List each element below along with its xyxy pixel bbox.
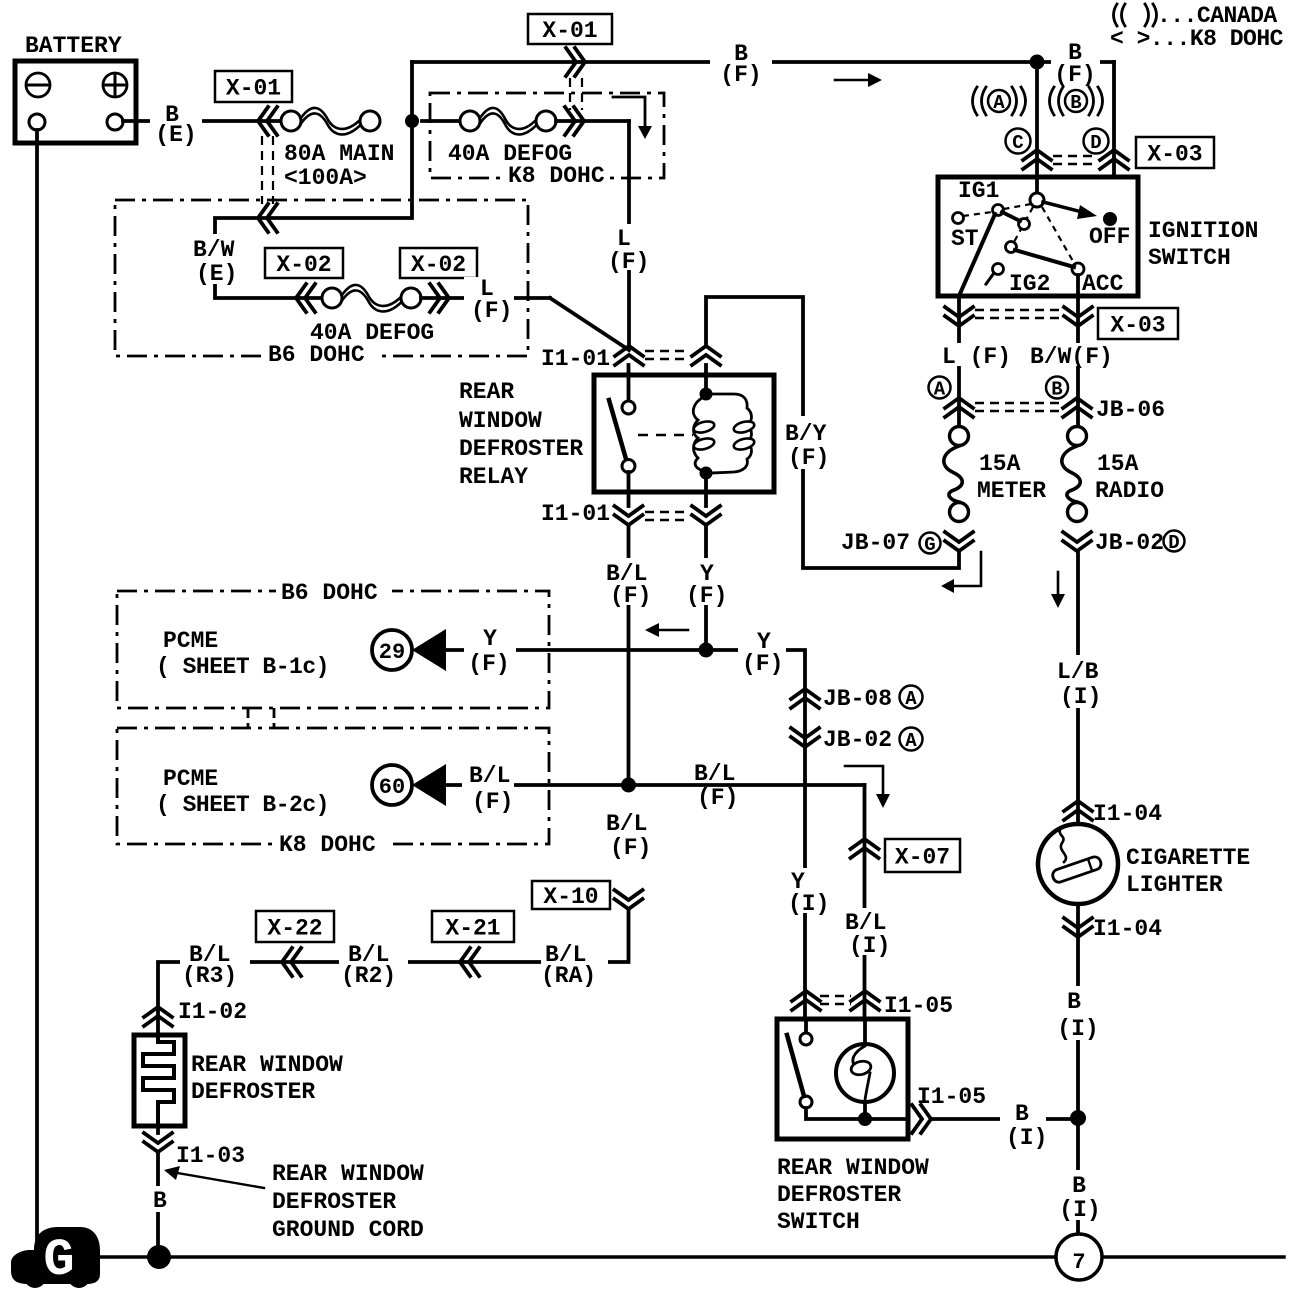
pin label B xyxy=(1046,377,1068,401)
svg-text:B: B xyxy=(1015,1101,1029,1127)
connector X-03 label box top xyxy=(1136,137,1214,168)
wire L (F) from K8 fuse to relay xyxy=(604,121,652,346)
bottom ground bus wire xyxy=(99,1255,1284,1258)
svg-text:(I): (I) xyxy=(1057,1016,1098,1042)
svg-text:(I): (I) xyxy=(1059,1197,1100,1223)
svg-text:B/W(F): B/W(F) xyxy=(1030,344,1113,370)
wire B/W (E) xyxy=(188,121,412,298)
svg-text:(F): (F) xyxy=(720,62,761,88)
dashed box B6 DOHC xyxy=(115,200,528,368)
svg-text:ST: ST xyxy=(951,226,979,252)
svg-text:X-10: X-10 xyxy=(543,884,598,910)
svg-text:IG1: IG1 xyxy=(958,178,999,204)
wire B/L (F) from relay switch xyxy=(602,525,652,785)
svg-text:I1-01: I1-01 xyxy=(541,501,610,527)
label L (F) xyxy=(936,343,1011,370)
svg-text:JB-02: JB-02 xyxy=(1095,530,1164,556)
connector X-01 chevron on B(F) xyxy=(566,48,585,76)
connector I1-05 xyxy=(792,991,953,1019)
fuse 15A RADIO xyxy=(1062,427,1164,522)
svg-text:JB-06: JB-06 xyxy=(1096,397,1165,423)
pin 60 with arrow xyxy=(372,764,446,806)
svg-text:I1-04: I1-04 xyxy=(1093,801,1162,827)
relay mechanical link (dashed) xyxy=(638,434,693,436)
svg-text:( SHEET B-2c): ( SHEET B-2c) xyxy=(156,792,329,818)
rear window defroster switch box xyxy=(777,1019,929,1235)
svg-text:RADIO: RADIO xyxy=(1095,478,1164,504)
svg-text:X-02: X-02 xyxy=(276,252,331,278)
dashed box 40A DEFOG K8 DOHC xyxy=(430,93,664,178)
wire B/Y (F) relay coil feed xyxy=(706,297,959,568)
svg-text:80A MAIN: 80A MAIN xyxy=(284,141,394,167)
sheet continuation circle 7 xyxy=(1056,1234,1102,1280)
svg-text:X-22: X-22 xyxy=(267,916,322,942)
svg-text:15A: 15A xyxy=(979,451,1021,477)
svg-text:JB-08: JB-08 xyxy=(823,686,892,712)
svg-text:B: B xyxy=(1070,92,1081,114)
svg-text:(F): (F) xyxy=(471,298,512,324)
svg-text:A: A xyxy=(993,92,1005,114)
svg-text:(R3): (R3) xyxy=(182,963,237,989)
svg-text:(F): (F) xyxy=(472,789,513,815)
connector X-03 chevrons top xyxy=(1023,150,1128,169)
svg-text:(F): (F) xyxy=(788,445,829,471)
junction block JB-06 connector xyxy=(945,397,1165,423)
pin label C xyxy=(1006,129,1031,155)
svg-text:PCME: PCME xyxy=(163,766,218,792)
svg-text:JB-02: JB-02 xyxy=(823,727,892,753)
svg-text:GROUND CORD: GROUND CORD xyxy=(272,1217,424,1243)
connector I1-02 xyxy=(144,999,247,1026)
junction dot B(F) / ignition feed xyxy=(1030,55,1045,70)
svg-text:I1-03: I1-03 xyxy=(176,1143,245,1169)
svg-text:REAR: REAR xyxy=(459,379,514,405)
fuse 80A MAIN <100A> xyxy=(281,108,394,191)
svg-text:(R2): (R2) xyxy=(341,963,396,989)
svg-text:(E): (E) xyxy=(196,261,237,287)
defroster switch lamp xyxy=(836,1019,894,1119)
connector X-01 dashed link xyxy=(262,136,273,204)
svg-text:DEFROSTER: DEFROSTER xyxy=(272,1189,396,1215)
wire L/B (I) to cigarette lighter xyxy=(1052,551,1112,825)
junction block JB-08 A xyxy=(791,686,923,713)
wire B/L (F) to PCME pin 60 xyxy=(444,760,865,815)
svg-text:I1-05: I1-05 xyxy=(917,1084,986,1110)
connector X-01 dashed link top xyxy=(570,78,582,110)
svg-text:<100A>: <100A> xyxy=(284,165,367,191)
svg-text:I1-02: I1-02 xyxy=(178,999,247,1025)
connector I1-04 top xyxy=(1064,801,1162,827)
svg-text:LIGHTER: LIGHTER xyxy=(1126,872,1223,898)
svg-text:X-07: X-07 xyxy=(895,845,950,871)
dashed box PCME K8 DOHC xyxy=(117,728,549,858)
junction dot B/L xyxy=(621,778,636,793)
svg-text:K8 DOHC: K8 DOHC xyxy=(279,832,376,858)
relay coil xyxy=(693,365,756,506)
rear window defroster relay box xyxy=(459,375,774,492)
wire Y (I) to defroster switch xyxy=(706,628,830,1019)
svg-text:B: B xyxy=(153,1188,167,1214)
PCME (SHEET B-1c) texts xyxy=(156,628,329,680)
connector I1-01 bottom xyxy=(541,501,720,527)
wire Y (F) to PCME pin 29 xyxy=(444,625,706,677)
svg-text:X-01: X-01 xyxy=(226,76,281,102)
arrow annotation flow right on B(F) xyxy=(835,73,882,87)
svg-text:G: G xyxy=(43,1231,74,1290)
connector X-22 xyxy=(256,911,334,976)
fuse 40A DEFOG (K8 DOHC) xyxy=(422,108,629,189)
svg-text:JB-07: JB-07 xyxy=(841,530,910,556)
dash links between PCME boxes xyxy=(248,708,274,728)
legend CANADA / K8 DOHC xyxy=(1110,3,1284,52)
svg-text:D: D xyxy=(1090,132,1101,154)
connector JB-07 G xyxy=(841,530,973,556)
svg-text:X-01: X-01 xyxy=(542,18,597,44)
svg-text:B/L: B/L xyxy=(694,761,735,787)
svg-text:(F): (F) xyxy=(608,249,649,275)
annotation rear window defroster ground cord xyxy=(164,1161,424,1243)
svg-text:(F): (F) xyxy=(468,651,509,677)
wire B (E) battery positive feed xyxy=(123,102,291,148)
pin label ((B)) xyxy=(1050,87,1103,115)
junction block JB-02 A xyxy=(791,727,923,753)
wire B (I) lighter to ground xyxy=(1054,904,1104,1234)
svg-text:G: G xyxy=(924,534,935,556)
arrow annotation below JB-02 xyxy=(1051,572,1065,608)
svg-text:(F): (F) xyxy=(610,583,651,609)
junction dot ground xyxy=(147,1245,171,1269)
svg-text:(F): (F) xyxy=(610,835,651,861)
svg-text:(F): (F) xyxy=(697,785,738,811)
svg-text:B/Y: B/Y xyxy=(785,421,827,447)
label B (F) at ignition feed xyxy=(1051,40,1100,88)
connector X-02 chevrons xyxy=(296,284,449,312)
pin 29 with arrow xyxy=(372,629,446,671)
svg-text:METER: METER xyxy=(977,478,1046,504)
connector X-21 xyxy=(432,911,514,976)
svg-text:A: A xyxy=(905,688,917,710)
wire battery negative to ground symbol xyxy=(35,130,39,1240)
connector X-03 label box bottom xyxy=(1098,308,1178,339)
svg-text:Y: Y xyxy=(483,626,497,652)
connector I1-05 output xyxy=(912,1084,986,1133)
connector X-10 xyxy=(532,881,643,910)
fuse 15A METER xyxy=(944,427,1046,522)
svg-text:SWITCH: SWITCH xyxy=(777,1209,860,1235)
connector JB-02 D xyxy=(1063,530,1185,556)
ignition switch internals xyxy=(951,177,1130,297)
junction dot lamp xyxy=(858,1112,872,1126)
ignition switch box xyxy=(938,177,1258,296)
rear window defroster element xyxy=(134,1035,343,1126)
label B/Y (F) right of relay xyxy=(0,0,1,1)
svg-text:(E): (E) xyxy=(155,122,196,148)
svg-text:DEFROSTER: DEFROSTER xyxy=(777,1182,901,1208)
svg-text:I1-04: I1-04 xyxy=(1093,916,1162,942)
svg-text:A: A xyxy=(905,730,917,752)
svg-text:IGNITION: IGNITION xyxy=(1148,218,1258,244)
connector X-01 chevron on battery feed xyxy=(258,107,277,135)
wire B (I) switch output xyxy=(931,1098,1078,1151)
svg-text:(I): (I) xyxy=(849,933,890,959)
pin label ((A)) xyxy=(973,87,1026,115)
wire diagonal to relay xyxy=(550,298,629,350)
svg-text:40A DEFOG: 40A DEFOG xyxy=(310,320,434,346)
svg-text:I1-05: I1-05 xyxy=(884,993,953,1019)
arrow annotation (continuation) in K8 box xyxy=(613,97,652,139)
svg-text:A: A xyxy=(934,379,946,401)
junction node on battery feed xyxy=(405,114,419,128)
svg-text:(F): (F) xyxy=(742,651,783,677)
label B/L (F) right segment xyxy=(694,761,738,811)
svg-text:L (F): L (F) xyxy=(942,344,1011,370)
svg-text:B: B xyxy=(1051,379,1062,401)
svg-text:15A: 15A xyxy=(1097,451,1139,477)
cigarette lighter xyxy=(1038,824,1250,904)
svg-text:X-03: X-03 xyxy=(1147,142,1202,168)
ground symbol G (car) xyxy=(11,1227,100,1290)
svg-text:D: D xyxy=(1168,532,1179,554)
connector X-01 chevron on B/W xyxy=(258,204,277,232)
svg-text:SWITCH: SWITCH xyxy=(1148,245,1231,271)
svg-text:ACC: ACC xyxy=(1082,271,1124,297)
svg-text:RELAY: RELAY xyxy=(459,464,528,490)
svg-text:B/W: B/W xyxy=(193,237,235,263)
svg-text:REAR WINDOW: REAR WINDOW xyxy=(191,1052,343,1078)
svg-text:C: C xyxy=(1012,132,1023,154)
svg-text:(RA): (RA) xyxy=(541,963,596,989)
pin label D xyxy=(1084,129,1109,155)
label B/L (F) above X-10 xyxy=(602,808,652,861)
svg-text:B6 DOHC: B6 DOHC xyxy=(281,580,378,606)
pin label A xyxy=(929,377,951,401)
connector X-01 top label box xyxy=(528,14,612,44)
connector I1-01 top xyxy=(541,346,720,372)
wire B/L (RA)-(R2)-(R3) to rear defroster xyxy=(158,909,629,1035)
connector X-01 chevron on fuse output xyxy=(565,107,584,135)
svg-text:WINDOW: WINDOW xyxy=(459,408,542,434)
svg-text:< >...K8 DOHC: < >...K8 DOHC xyxy=(1110,26,1284,52)
wire B (F) top feed xyxy=(412,41,1114,121)
svg-text:(F): (F) xyxy=(1054,62,1095,88)
svg-text:X-03: X-03 xyxy=(1110,313,1165,339)
svg-text:B/L: B/L xyxy=(469,763,510,789)
svg-text:DEFROSTER: DEFROSTER xyxy=(191,1079,315,1105)
svg-text:CIGARETTE: CIGARETTE xyxy=(1126,845,1250,871)
svg-text:29: 29 xyxy=(379,640,405,665)
wire B/L (I) to defroster switch xyxy=(841,785,891,1019)
svg-text:DEFROSTER: DEFROSTER xyxy=(459,436,583,462)
fuse 40A DEFOG (B6 DOHC) xyxy=(310,276,550,346)
PCME (SHEET B-2c) texts xyxy=(156,766,329,818)
connector I1-04 bottom xyxy=(1064,916,1162,942)
battery B+ / B- terminals and case xyxy=(15,33,136,143)
connector X-02 label boxes xyxy=(265,248,477,278)
arrow annotation above X-07 xyxy=(845,766,890,808)
junction dot Y xyxy=(699,643,714,658)
svg-text:60: 60 xyxy=(379,775,405,800)
svg-text:(I): (I) xyxy=(1060,684,1101,710)
svg-text:(I): (I) xyxy=(788,891,829,917)
label B/W(F) xyxy=(1028,343,1120,370)
svg-text:B: B xyxy=(1067,989,1081,1015)
dashed box PCME B6 DOHC xyxy=(117,578,549,708)
svg-text:OFF: OFF xyxy=(1089,224,1130,250)
arrow annotation below JB-07 xyxy=(941,552,981,593)
svg-text:IG2: IG2 xyxy=(1009,271,1050,297)
svg-text:X-21: X-21 xyxy=(445,916,500,942)
connector X-07 xyxy=(851,839,961,872)
wire B ground cord xyxy=(146,1152,174,1245)
defroster switch contacts and blade xyxy=(787,1019,908,1119)
svg-text:L/B: L/B xyxy=(1057,659,1099,685)
svg-text:X-02: X-02 xyxy=(411,252,466,278)
wire ignition feed C xyxy=(1035,62,1039,195)
relay switch contacts and blade xyxy=(609,365,635,506)
svg-text:(F): (F) xyxy=(686,583,727,609)
svg-text:PCME: PCME xyxy=(163,628,218,654)
svg-text:I1-01: I1-01 xyxy=(541,346,610,372)
svg-text:K8 DOHC: K8 DOHC xyxy=(508,163,605,189)
svg-text:( SHEET B-1c): ( SHEET B-1c) xyxy=(156,654,329,680)
arrow annotation flow left on Y xyxy=(645,623,688,637)
wire ignition feed D xyxy=(1044,62,1114,198)
connector I1-03 xyxy=(144,1126,245,1169)
svg-text:B/L: B/L xyxy=(606,811,647,837)
svg-text:7: 7 xyxy=(1072,1250,1085,1275)
junction dot B (I) xyxy=(1070,1110,1086,1126)
connector X-03 chevrons below ignition xyxy=(945,296,1092,427)
wire Y (F) from relay coil xyxy=(682,525,732,650)
svg-text:REAR WINDOW: REAR WINDOW xyxy=(777,1155,929,1181)
svg-text:BATTERY: BATTERY xyxy=(25,33,122,59)
svg-text:REAR WINDOW: REAR WINDOW xyxy=(272,1161,424,1187)
connector X-01 label box xyxy=(215,71,292,102)
svg-text:(I): (I) xyxy=(1006,1125,1047,1151)
svg-text:B: B xyxy=(1072,1173,1086,1199)
